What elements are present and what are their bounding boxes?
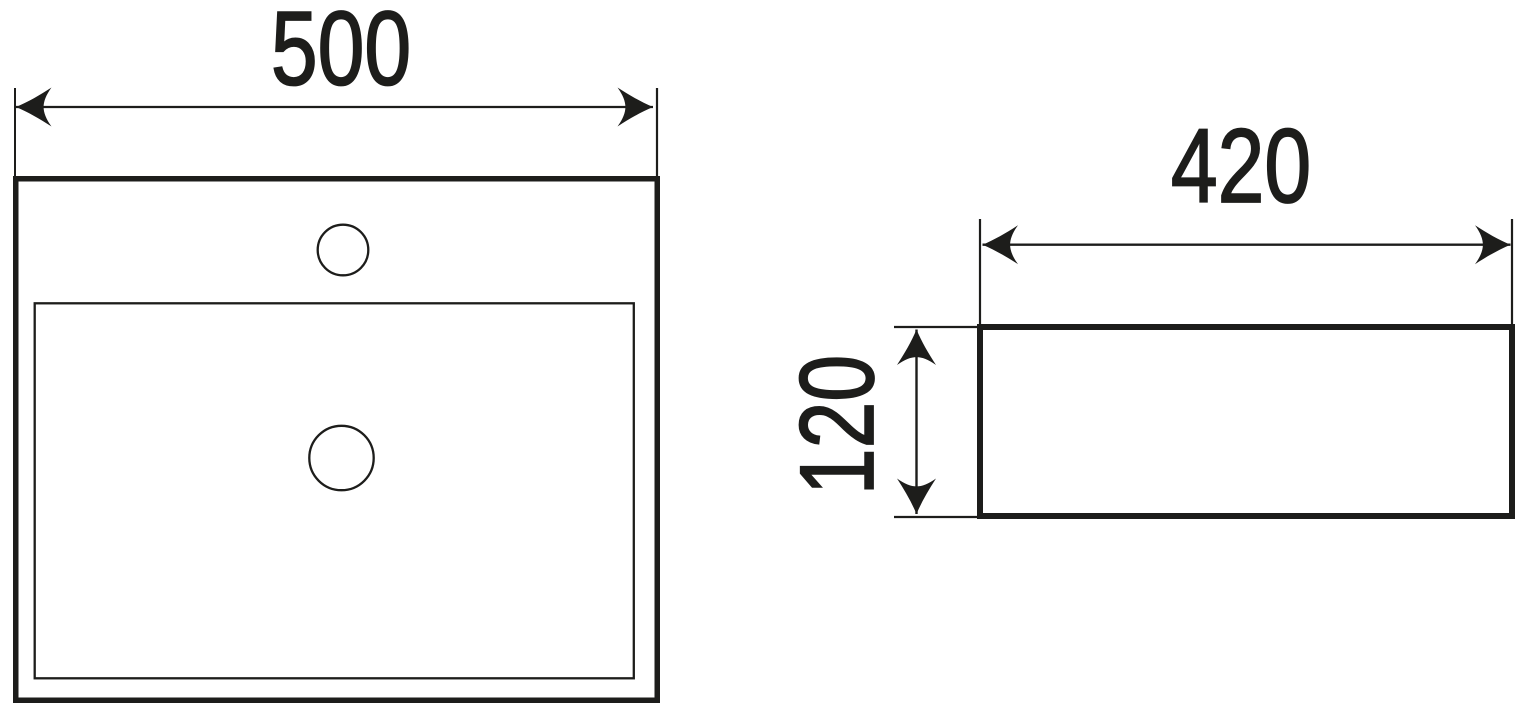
extension line right of 500 dimension [656, 88, 658, 176]
arrowhead left of 420 dimension [983, 225, 1019, 264]
faucet hole circle [318, 225, 369, 276]
svg-text:500: 500 [271, 0, 411, 108]
extension line left of 500 dimension [14, 88, 16, 176]
dimension line 120 [915, 330, 917, 515]
arrowhead right of 420 dimension [1475, 225, 1511, 264]
dimension line 500 [16, 106, 653, 108]
arrowhead bottom of 120 dimension [897, 479, 936, 515]
arrowhead left of 500 dimension [16, 88, 52, 127]
extension line right of 420 dimension [1511, 219, 1513, 324]
basin outer rim rectangle [16, 179, 658, 701]
basin inner bowl rectangle [35, 303, 634, 678]
extension line left of 420 dimension [979, 219, 981, 324]
svg-text:120: 120 [779, 355, 896, 495]
arrowhead right of 500 dimension [618, 88, 654, 127]
extension line bottom of 120 dimension [894, 516, 983, 518]
svg-text:420: 420 [1171, 108, 1311, 225]
drain hole circle [309, 426, 373, 490]
side view body rectangle [980, 327, 1512, 516]
dimension line 420 [983, 244, 1511, 246]
extension line top of 120 dimension [894, 326, 983, 328]
arrowhead top of 120 dimension [897, 330, 936, 366]
